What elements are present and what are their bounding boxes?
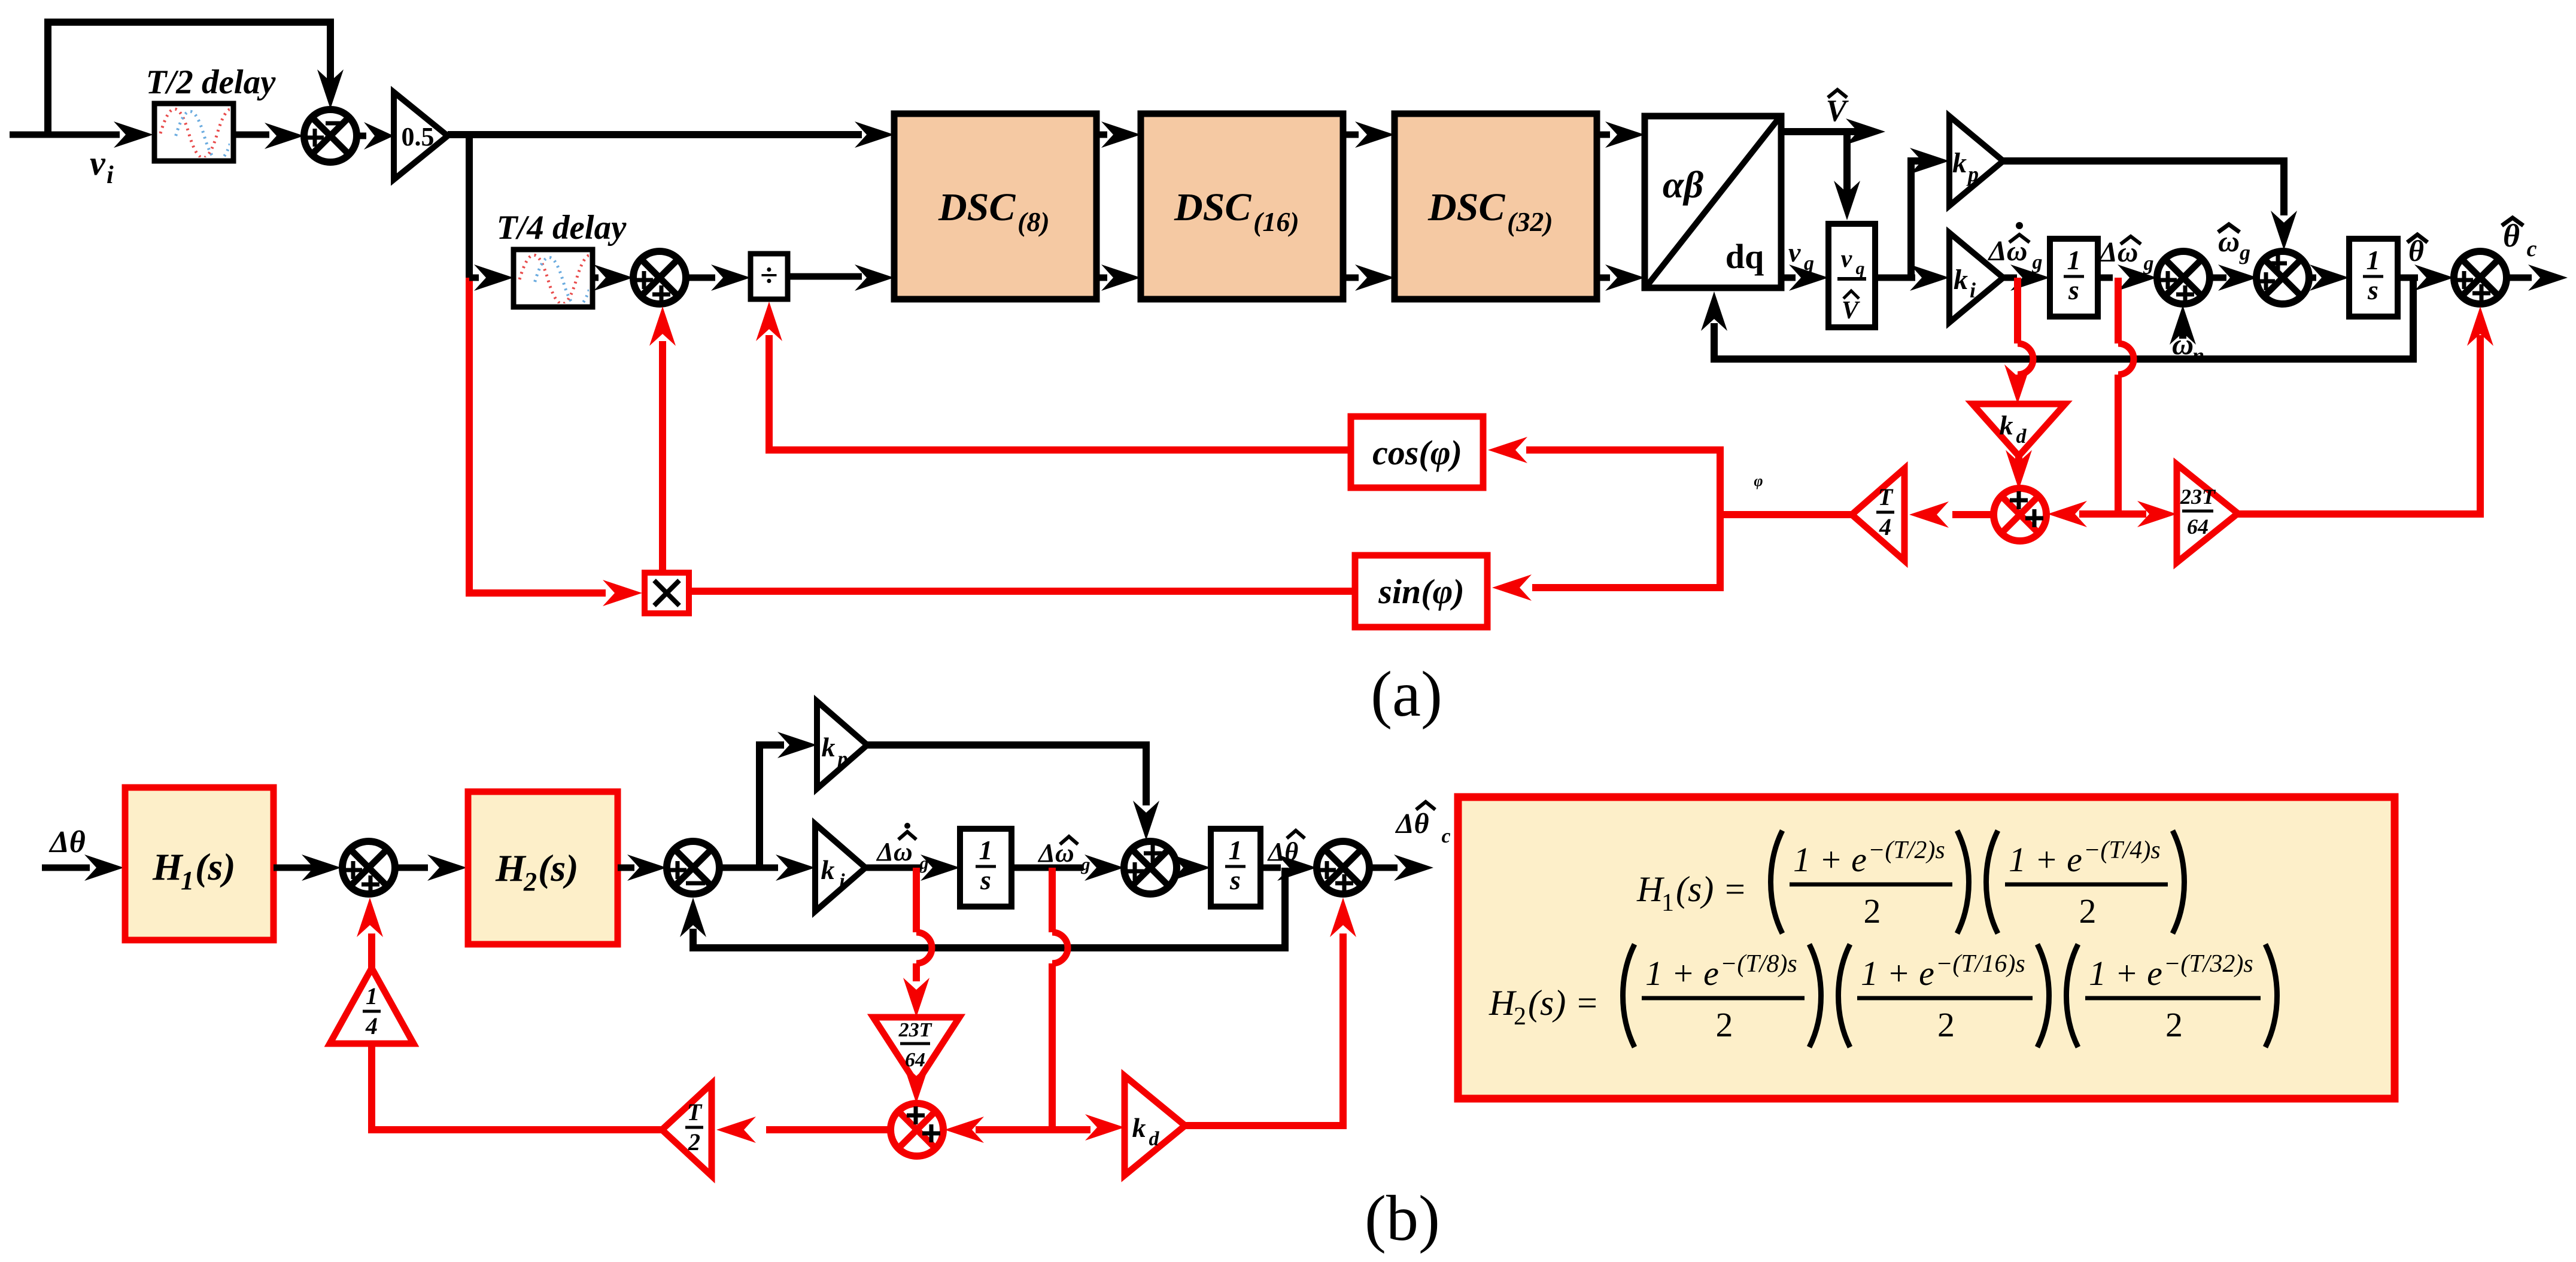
red hop 1 <box>2018 343 2033 375</box>
svg-text:g: g <box>919 853 929 873</box>
block DSC32 <box>1395 114 1597 299</box>
gain T4 <box>1852 469 1904 561</box>
wire red b1 to 23T64 <box>903 963 929 1017</box>
svg-text:k: k <box>1132 1112 1146 1143</box>
block sin phi <box>1355 555 1487 627</box>
svg-text:23T: 23T <box>898 1019 932 1041</box>
wire DSC8 to DSC16 lower <box>1096 264 1141 291</box>
svg-text:k: k <box>1952 147 1967 179</box>
block T/2 delay <box>154 104 261 161</box>
wire sum S2 to divide <box>686 264 751 291</box>
svg-text:T/2 delay: T/2 delay <box>146 63 277 101</box>
svg-text:Δω: Δω <box>1037 838 1074 868</box>
wire kd to red sum <box>2006 450 2032 489</box>
svg-text:(s) =: (s) = <box>1528 983 1599 1023</box>
wire DSC32 to abdq lower <box>1597 264 1645 291</box>
wire abdq V out <box>1781 118 1885 145</box>
label dwg-dot b <box>876 823 928 873</box>
sum B3 <box>1124 841 1177 894</box>
sum S4 <box>2256 251 2309 304</box>
block mult x <box>645 573 689 613</box>
wire DSC16 to DSC32 lower <box>1343 264 1395 291</box>
wire sum B1 to H2 <box>395 854 467 881</box>
wire sum B2 to ki <box>719 854 815 881</box>
wire down into sum S1 <box>317 69 344 109</box>
wire 23T64 up to sum S5 <box>2237 306 2493 514</box>
label dtheta c b <box>1395 802 1450 847</box>
wire gain 0.5 to DSC8 upper <box>448 121 894 148</box>
wire vqV to ki <box>1875 264 1949 291</box>
wire red into sum right <box>2048 501 2118 527</box>
svg-text:i: i <box>107 162 114 189</box>
sum S5 <box>2454 251 2507 304</box>
red hop b2 <box>1052 932 1068 963</box>
label wn <box>2172 327 2204 367</box>
wire red sum to T4 <box>1909 501 1995 528</box>
svg-text:2: 2 <box>1864 892 1881 930</box>
label vq <box>1788 237 1814 275</box>
svg-text:T: T <box>1878 483 1894 510</box>
wire integrator1 to sum wn <box>2098 264 2157 291</box>
wire red to 23T64 <box>2118 501 2177 527</box>
svg-text:d: d <box>2016 425 2027 448</box>
svg-text:k: k <box>1954 264 1968 296</box>
svg-text:s: s <box>2367 275 2378 305</box>
sum S1 <box>304 110 357 162</box>
svg-text:H: H <box>1489 983 1517 1023</box>
svg-text:q: q <box>1856 259 1865 278</box>
formula box <box>1458 797 2395 1099</box>
label theta c <box>2502 218 2537 261</box>
wire T2 to quarter <box>372 1044 662 1130</box>
svg-text:2: 2 <box>688 1129 700 1155</box>
wire feedforward top <box>48 22 330 138</box>
sum B4 <box>1317 841 1369 894</box>
svg-text:2: 2 <box>523 867 537 896</box>
wire branch down red <box>469 278 606 593</box>
gain T2 <box>662 1084 712 1176</box>
svg-text:p: p <box>836 748 848 770</box>
wire dtheta input <box>42 854 124 881</box>
svg-text:g: g <box>2239 241 2250 264</box>
wire branch to mult box <box>603 580 642 606</box>
wire kp feedback <box>2003 161 2297 250</box>
wire DSC8 to DSC16 upper <box>1096 121 1141 148</box>
svg-text:−(T/2)s: −(T/2)s <box>1868 837 1945 864</box>
svg-text:1 + e: 1 + e <box>2009 840 2082 879</box>
svg-text:Δω: Δω <box>876 837 912 866</box>
wire output theta c <box>2507 264 2568 291</box>
wire mult up to sum S2 <box>649 306 676 573</box>
svg-text:(8): (8) <box>1017 206 1050 237</box>
wire V down to vqV <box>1834 128 1860 220</box>
svg-text:H: H <box>1636 869 1665 909</box>
svg-text:V: V <box>1826 94 1849 128</box>
svg-text:(s): (s) <box>195 846 236 888</box>
svg-text:1: 1 <box>366 983 378 1009</box>
svg-text:(16): (16) <box>1253 206 1299 237</box>
svg-text:i: i <box>839 870 845 892</box>
wire ki b to integrator1 b <box>865 854 960 881</box>
node red branch 2 <box>2115 278 2122 343</box>
wire output b <box>1369 854 1433 881</box>
svg-text:1 + e: 1 + e <box>1645 954 1719 993</box>
label T/4 delay <box>497 209 627 247</box>
label dtheta <box>48 825 86 859</box>
svg-text:4: 4 <box>1879 513 1891 540</box>
label (a) <box>1371 659 1442 730</box>
wire red sum B5 to T2 <box>716 1117 892 1143</box>
gain ki <box>1949 233 2003 323</box>
svg-text:H: H <box>152 846 184 888</box>
svg-text:v: v <box>1788 237 1801 267</box>
wire T/2 delay to sum S1 <box>233 123 304 149</box>
svg-text:1: 1 <box>2367 245 2380 275</box>
wire integrator1 b to sum B3 <box>1011 854 1124 881</box>
svg-text:c: c <box>1441 825 1450 847</box>
wire integrator2 b to sum B4 <box>1260 854 1317 881</box>
svg-text:23T: 23T <box>2180 485 2216 509</box>
wire sum B3 to integrator2 b <box>1171 854 1211 881</box>
svg-text:(b): (b) <box>1365 1183 1440 1254</box>
svg-text:c: c <box>2527 236 2537 261</box>
node branch after 0.5 <box>466 135 473 278</box>
svg-text:g: g <box>1081 854 1090 874</box>
svg-text:0.5: 0.5 <box>402 122 435 151</box>
svg-text:Δθ: Δθ <box>1395 808 1429 840</box>
label V hat <box>1826 90 1849 128</box>
sum B2 <box>667 841 719 894</box>
wire ki to integrator1 <box>2003 264 2050 291</box>
label theta hat <box>2407 234 2428 267</box>
wire kp b feedback <box>867 745 1159 840</box>
node red branch 1 <box>2014 278 2021 343</box>
wire H1 to sum B1 <box>274 854 341 881</box>
red hop b1 <box>916 932 932 963</box>
gain quarter <box>330 968 414 1044</box>
svg-text:(s): (s) <box>538 847 579 889</box>
label phi <box>1754 472 1763 489</box>
svg-text:v: v <box>1841 245 1853 273</box>
svg-text:64: 64 <box>2187 515 2209 539</box>
svg-text:2: 2 <box>1716 1005 1733 1044</box>
svg-text:(s) =: (s) = <box>1676 869 1747 909</box>
wire kd b up to sum B4 <box>1185 898 1356 1126</box>
wire H2 to sum B2 <box>618 854 667 881</box>
svg-text:Δθ: Δθ <box>48 825 86 859</box>
wire sum S4 to integrator2 <box>2309 264 2349 291</box>
block DSC8 <box>894 114 1096 299</box>
wire cos to divide <box>756 302 1351 450</box>
svg-text:αβ: αβ <box>1663 163 1703 206</box>
sum B1 <box>342 841 395 894</box>
svg-text:2: 2 <box>1514 1003 1526 1030</box>
wire DSC16 to DSC32 upper <box>1343 121 1395 148</box>
label (b) <box>1365 1183 1440 1254</box>
gain kd <box>1973 404 2065 456</box>
svg-text:(a): (a) <box>1371 659 1442 730</box>
sum S3 wn <box>2157 251 2210 304</box>
wire sum wn to sum S4 <box>2210 264 2258 291</box>
svg-text:1: 1 <box>181 866 194 895</box>
svg-text:Δω: Δω <box>1988 235 2028 267</box>
svg-text:s: s <box>2068 275 2079 305</box>
block integrator2 b <box>1211 829 1260 907</box>
svg-text:sin(φ): sin(φ) <box>1378 572 1465 611</box>
wire red to kd <box>2004 364 2031 404</box>
block integrator1 b <box>960 829 1011 907</box>
wire phi to sin <box>1492 512 1720 601</box>
red sum S6 <box>1994 488 2046 541</box>
svg-text:1: 1 <box>979 835 993 865</box>
svg-text:1: 1 <box>1661 889 1674 917</box>
block abdq <box>1645 116 1781 288</box>
node red branch b2 <box>1049 868 1056 932</box>
svg-text:T/4 delay: T/4 delay <box>497 209 627 247</box>
svg-text:1 + e: 1 + e <box>2089 954 2162 993</box>
wire phi to cos <box>1488 437 1720 518</box>
wire quarter to sum B1 <box>357 898 383 968</box>
block DSC16 <box>1141 114 1343 299</box>
block vq over V <box>1828 224 1875 327</box>
wire red branch2 down <box>2115 375 2122 518</box>
label wg hat <box>2218 224 2250 264</box>
svg-text:1: 1 <box>2067 245 2081 275</box>
svg-text:DSC: DSC <box>1174 186 1251 229</box>
svg-text:−(T/8)s: −(T/8)s <box>1720 950 1797 978</box>
svg-text:Δω: Δω <box>2098 236 2138 268</box>
svg-text:DSC: DSC <box>938 186 1016 229</box>
label dwg b <box>1037 837 1090 874</box>
svg-text:64: 64 <box>905 1049 925 1071</box>
wire up to kp b <box>760 732 817 868</box>
label dwg-dot <box>1988 222 2043 273</box>
wire vi input <box>10 121 153 148</box>
svg-text:−(T/4)s: −(T/4)s <box>2083 837 2161 864</box>
svg-text:2: 2 <box>1937 1005 1955 1044</box>
gain 23T64 b <box>873 1017 959 1084</box>
svg-text:1: 1 <box>1229 835 1243 865</box>
svg-text:T: T <box>687 1099 703 1126</box>
svg-text:H: H <box>495 847 527 889</box>
wire feedback b <box>680 868 1285 948</box>
svg-text:4: 4 <box>365 1012 378 1039</box>
svg-text:÷: ÷ <box>760 257 778 293</box>
red hop 2 <box>2118 343 2134 375</box>
svg-text:(32): (32) <box>1507 206 1553 237</box>
block divide <box>751 254 788 299</box>
wire wn into sum <box>2170 305 2196 345</box>
block integrator2 <box>2349 239 2398 317</box>
wire divide to DSC8 lower <box>788 264 894 291</box>
svg-text:k: k <box>822 732 836 762</box>
label dtheta hat b <box>1267 831 1305 866</box>
svg-text:φ: φ <box>1754 472 1763 489</box>
block T/4 delay <box>514 250 620 307</box>
svg-text:v: v <box>90 144 106 183</box>
block H2 <box>468 792 618 944</box>
svg-text:d: d <box>1149 1128 1160 1150</box>
svg-text:−(T/32)s: −(T/32)s <box>2164 950 2253 978</box>
svg-text:q: q <box>1804 253 1814 275</box>
svg-text:Δθ: Δθ <box>1267 837 1299 866</box>
gain 0.5 <box>394 92 448 180</box>
formula H1 <box>1636 831 2185 933</box>
svg-text:−(T/16)s: −(T/16)s <box>1936 950 2025 978</box>
wire T4 to phi node <box>1717 511 1852 518</box>
wire red b2 to kd b <box>1052 1114 1125 1141</box>
svg-text:s: s <box>980 865 991 895</box>
block H1 <box>125 787 274 940</box>
svg-text:2: 2 <box>2079 892 2097 930</box>
wire 23T64 b to red sum <box>903 1064 929 1103</box>
wire T/4 delay to sum S2 <box>593 264 633 291</box>
block cos phi <box>1351 416 1483 488</box>
gain kp <box>1949 116 2003 206</box>
svg-text:g: g <box>2032 251 2043 273</box>
gain 23T64 <box>2177 464 2238 562</box>
svg-text:DSC: DSC <box>1427 186 1505 229</box>
svg-text:k: k <box>821 854 835 885</box>
wire abdq vq to vqV <box>1781 264 1828 291</box>
formula H2 <box>1489 944 2277 1047</box>
wire up to kp <box>1910 148 1949 278</box>
wire integrator2 to sum S5 <box>2398 264 2454 291</box>
svg-text:p: p <box>1966 162 1979 186</box>
wire branch to T/4 delay <box>469 264 514 291</box>
wire red b2 down <box>1049 963 1056 1133</box>
svg-text:1 + e: 1 + e <box>1861 954 1934 993</box>
svg-text:i: i <box>1970 278 1976 302</box>
svg-text:2: 2 <box>2165 1005 2183 1044</box>
node red branch b1 <box>913 868 920 932</box>
red sum B5 <box>891 1103 943 1156</box>
gain kd b <box>1125 1076 1185 1175</box>
svg-text:1 + e: 1 + e <box>1793 840 1867 879</box>
sum S2 <box>633 251 686 304</box>
wire theta feedback <box>1701 278 2413 359</box>
gain ki b <box>815 824 865 911</box>
block integrator1 <box>2050 239 2098 317</box>
label T/2 delay <box>146 63 277 101</box>
wire red b2 into sum <box>944 1117 1052 1143</box>
label vi <box>90 144 114 189</box>
svg-text:g: g <box>2143 253 2154 275</box>
svg-text:s: s <box>1229 865 1241 895</box>
label dwg <box>2098 236 2154 275</box>
svg-text:cos(φ): cos(φ) <box>1372 433 1462 472</box>
wire DSC32 to abdq upper <box>1597 121 1645 148</box>
svg-text:dq: dq <box>1726 237 1764 276</box>
svg-text:V: V <box>1842 297 1860 324</box>
wire sum S1 to gain 0.5 <box>358 122 394 150</box>
gain kp b <box>817 701 867 789</box>
wire sin to mult <box>689 588 1355 595</box>
svg-text:k: k <box>2000 410 2013 440</box>
